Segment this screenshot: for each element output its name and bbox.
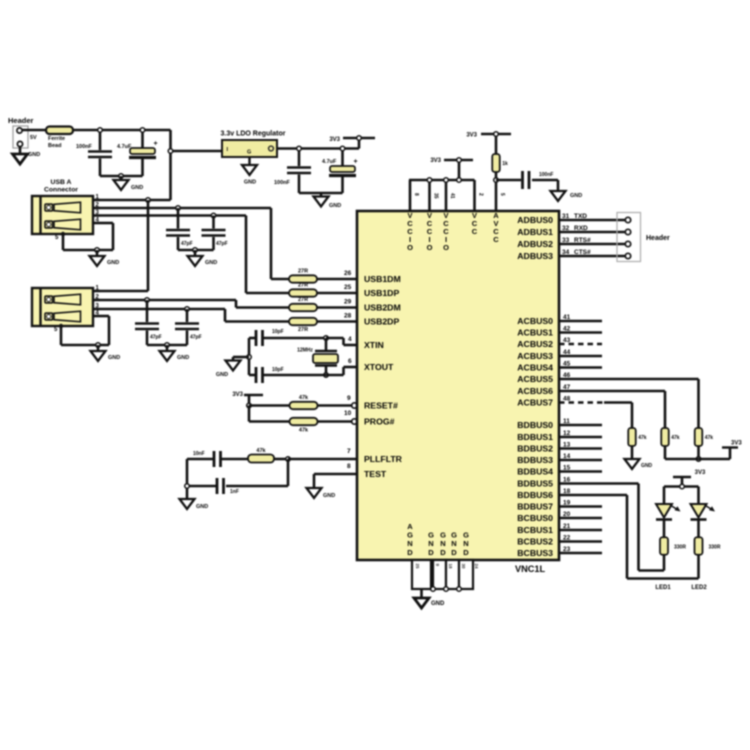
svg-text:4.7uF: 4.7uF	[117, 144, 132, 150]
svg-text:GND: GND	[131, 185, 143, 191]
svg-text:ACBUS5: ACBUS5	[517, 374, 553, 384]
svg-text:1nF: 1nF	[230, 489, 239, 495]
svg-text:25: 25	[415, 564, 420, 570]
svg-text:O: O	[407, 243, 413, 252]
svg-text:10pF: 10pF	[272, 367, 284, 373]
svg-text:23: 23	[563, 546, 571, 553]
svg-text:47pF: 47pF	[181, 241, 193, 247]
svg-text:28: 28	[344, 313, 352, 320]
svg-text:ADBUS3: ADBUS3	[517, 251, 553, 261]
svg-text:BDBUS3: BDBUS3	[517, 455, 553, 465]
svg-text:ACBUS1: ACBUS1	[517, 328, 553, 338]
svg-text:BDBUS1: BDBUS1	[517, 432, 553, 442]
svg-text:GND: GND	[177, 355, 189, 361]
svg-text:GND: GND	[641, 463, 653, 469]
svg-text:C: C	[493, 235, 499, 244]
svg-text:27R: 27R	[298, 297, 308, 303]
svg-text:10: 10	[344, 410, 352, 417]
svg-text:XTIN: XTIN	[364, 340, 384, 350]
svg-text:LED2: LED2	[691, 585, 707, 591]
svg-text:2: 2	[478, 193, 484, 196]
svg-text:330R: 330R	[709, 545, 721, 551]
svg-text:ADBUS2: ADBUS2	[517, 239, 553, 249]
svg-text:47pF: 47pF	[216, 241, 228, 247]
svg-text:21: 21	[563, 523, 571, 530]
svg-text:GND: GND	[107, 260, 119, 266]
svg-text:GND: GND	[216, 372, 228, 378]
svg-text:CTS#: CTS#	[574, 249, 591, 256]
svg-text:3V3: 3V3	[329, 137, 340, 143]
svg-text:VNC1L: VNC1L	[515, 564, 546, 574]
svg-text:D: D	[428, 548, 434, 557]
svg-text:GND: GND	[28, 152, 40, 158]
svg-text:29: 29	[344, 299, 352, 306]
svg-text:31: 31	[562, 213, 570, 220]
svg-text:12MHz: 12MHz	[297, 348, 313, 354]
svg-text:BDBUS2: BDBUS2	[517, 444, 553, 454]
svg-text:11: 11	[563, 418, 570, 425]
svg-text:BCBUS2: BCBUS2	[517, 537, 553, 547]
svg-text:13: 13	[563, 442, 571, 449]
svg-text:1k: 1k	[502, 161, 508, 167]
svg-text:USB2DP: USB2DP	[364, 317, 399, 327]
svg-text:+: +	[354, 159, 358, 166]
svg-text:27R: 27R	[298, 283, 308, 289]
svg-text:47pF: 47pF	[150, 335, 162, 341]
svg-text:3V3: 3V3	[232, 392, 243, 398]
svg-text:GND: GND	[570, 193, 582, 199]
svg-text:GND: GND	[323, 493, 335, 499]
svg-text:41: 41	[563, 314, 571, 321]
svg-text:42: 42	[563, 326, 571, 333]
svg-text:GND: GND	[205, 260, 217, 266]
svg-text:ACBUS4: ACBUS4	[517, 363, 553, 373]
svg-text:BDBUS5: BDBUS5	[517, 479, 553, 489]
svg-text:GND: GND	[196, 504, 208, 510]
svg-text:GND: GND	[329, 203, 341, 209]
svg-text:ACBUS7: ACBUS7	[517, 398, 553, 408]
svg-text:Header: Header	[646, 235, 670, 242]
svg-text:GND: GND	[431, 601, 445, 607]
svg-text:RESET#: RESET#	[364, 401, 398, 411]
svg-text:26: 26	[344, 270, 352, 277]
svg-text:LED1: LED1	[655, 585, 671, 591]
svg-text:PLLFLTR: PLLFLTR	[364, 454, 403, 464]
svg-text:20: 20	[563, 511, 571, 518]
svg-text:8: 8	[347, 463, 351, 470]
svg-text:D: D	[440, 548, 446, 557]
svg-text:TEST: TEST	[364, 469, 387, 479]
svg-text:19: 19	[563, 500, 571, 507]
svg-text:O: O	[443, 243, 449, 252]
svg-text:32: 32	[562, 225, 570, 232]
svg-text:27R: 27R	[298, 269, 308, 275]
svg-text:G: G	[247, 150, 251, 156]
svg-text:TXD: TXD	[574, 213, 587, 220]
svg-text:4: 4	[348, 336, 352, 343]
svg-text:3V3: 3V3	[430, 158, 441, 164]
svg-text:ACBUS0: ACBUS0	[517, 316, 553, 326]
svg-text:BDBUS7: BDBUS7	[517, 502, 553, 512]
svg-text:+: +	[154, 141, 158, 148]
svg-text:30: 30	[461, 564, 466, 570]
svg-text:ACBUS3: ACBUS3	[517, 351, 553, 361]
svg-text:3.3v LDO Regulator: 3.3v LDO Regulator	[221, 131, 286, 138]
svg-text:47k: 47k	[299, 428, 309, 434]
svg-text:12: 12	[563, 430, 571, 437]
svg-text:XTOUT: XTOUT	[364, 362, 394, 372]
svg-text:5V: 5V	[30, 135, 37, 141]
svg-text:USB2DM: USB2DM	[364, 303, 401, 313]
svg-text:43: 43	[563, 337, 571, 344]
svg-text:10pF: 10pF	[272, 329, 284, 335]
svg-text:3V3: 3V3	[695, 470, 706, 476]
svg-text:BDBUS4: BDBUS4	[517, 467, 553, 477]
svg-text:Connector: Connector	[44, 187, 78, 194]
svg-text:100nF: 100nF	[539, 172, 553, 178]
svg-text:Bead: Bead	[48, 143, 61, 149]
svg-text:5: 5	[499, 193, 505, 196]
svg-text:9: 9	[347, 395, 351, 402]
svg-text:ACBUS2: ACBUS2	[517, 339, 553, 349]
svg-text:USB A: USB A	[51, 179, 72, 186]
svg-text:USB1DP: USB1DP	[364, 288, 399, 298]
svg-text:6: 6	[348, 358, 352, 365]
svg-text:14: 14	[563, 453, 571, 460]
svg-text:O: O	[427, 243, 433, 252]
svg-text:44: 44	[563, 349, 571, 356]
svg-text:D: D	[451, 548, 457, 557]
svg-text:45: 45	[563, 361, 571, 368]
svg-text:BDBUS0: BDBUS0	[517, 420, 553, 430]
svg-text:ACBUS6: ACBUS6	[517, 386, 553, 396]
svg-text:100nF: 100nF	[76, 144, 93, 150]
svg-text:47k: 47k	[256, 448, 266, 454]
svg-text:Header: Header	[8, 116, 34, 125]
svg-text:10nF: 10nF	[193, 451, 205, 457]
svg-text:7: 7	[347, 448, 351, 455]
svg-text:33: 33	[562, 237, 570, 244]
svg-text:BCBUS1: BCBUS1	[517, 525, 553, 535]
svg-text:15: 15	[563, 465, 571, 472]
svg-text:ADBUS0: ADBUS0	[517, 215, 553, 225]
svg-text:8: 8	[413, 193, 419, 196]
svg-text:USB1DM: USB1DM	[364, 274, 401, 284]
svg-text:PROG#: PROG#	[364, 417, 395, 427]
svg-text:47k: 47k	[299, 395, 309, 401]
svg-text:35: 35	[433, 193, 439, 199]
svg-text:24: 24	[474, 564, 479, 570]
svg-text:41: 41	[449, 193, 455, 199]
svg-text:RXD: RXD	[574, 225, 588, 232]
svg-text:18: 18	[448, 564, 453, 570]
svg-text:D: D	[463, 548, 469, 557]
svg-text:GND: GND	[244, 180, 256, 186]
svg-text:25: 25	[344, 284, 352, 291]
svg-text:47pF: 47pF	[190, 335, 202, 341]
svg-text:BDBUS6: BDBUS6	[517, 490, 553, 500]
svg-text:47k: 47k	[671, 435, 680, 441]
svg-text:Ferrite: Ferrite	[48, 136, 65, 142]
svg-text:GND: GND	[108, 355, 120, 361]
svg-text:D: D	[407, 548, 413, 557]
svg-text:BCBUS3: BCBUS3	[517, 548, 553, 558]
svg-text:3V3: 3V3	[731, 441, 742, 447]
svg-text:330R: 330R	[674, 545, 686, 551]
svg-text:BCBUS0: BCBUS0	[517, 513, 553, 523]
svg-text:100nF: 100nF	[274, 180, 291, 186]
svg-text:RTS#: RTS#	[574, 237, 591, 244]
svg-text:C: C	[472, 227, 478, 236]
svg-text:27R: 27R	[298, 327, 308, 333]
svg-text:22: 22	[563, 535, 571, 542]
svg-text:3V3: 3V3	[466, 133, 477, 139]
svg-text:4.7uF: 4.7uF	[322, 159, 337, 165]
svg-text:47k: 47k	[638, 435, 647, 441]
svg-text:34: 34	[562, 249, 570, 256]
svg-text:ADBUS1: ADBUS1	[517, 227, 553, 237]
svg-text:47k: 47k	[705, 435, 714, 441]
